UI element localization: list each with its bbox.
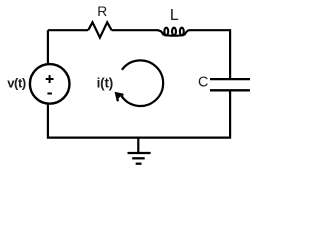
svg-text:v(t): v(t): [7, 76, 26, 91]
wire source top lead: [47, 30, 49, 65]
voltage source plus sign: [46, 75, 54, 83]
svg-text:R: R: [97, 4, 107, 19]
ground bar 3: [136, 163, 142, 165]
wire top-left horizontal segment: [48, 29, 88, 31]
voltage source V circle: [30, 64, 70, 104]
wire between resistor and inductor: [112, 29, 158, 31]
voltage source minus sign: [47, 93, 52, 95]
capacitor C top plate: [210, 78, 250, 80]
ground stub: [137, 138, 139, 154]
mesh current arrowhead: [116, 93, 123, 101]
svg-text:i(t): i(t): [97, 75, 113, 90]
wire inductor to top-right corner and down: [189, 30, 230, 78]
ground bar 2: [132, 157, 145, 159]
mesh current arrow arc: [121, 60, 163, 106]
svg-text:C: C: [198, 74, 208, 90]
svg-text:L: L: [170, 7, 179, 24]
ground bar 1: [128, 152, 151, 154]
inductor L: [157, 28, 190, 36]
wire capacitor down, bottom wire, up to source: [48, 90, 230, 137]
resistor R: [88, 22, 111, 37]
capacitor C bottom plate: [210, 89, 250, 91]
